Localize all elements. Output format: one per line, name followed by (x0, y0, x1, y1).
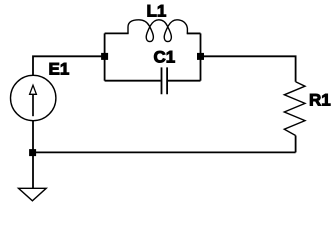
inductor L1 (128, 20, 201, 42)
node B junction square (right LC node) (197, 53, 204, 60)
svg-text:E1: E1 (49, 60, 70, 79)
wire from E1 top to node A (33, 56, 102, 76)
wire inductor left lead (105, 32, 129, 34)
wire bottom rail (33, 151, 296, 153)
node G junction square (ground node) (29, 149, 36, 156)
source E1 arrow shaft (32, 94, 34, 116)
wire capacitor left lead (105, 80, 161, 82)
wire E1 bottom to ground node (32, 121, 34, 150)
wire capacitor right lead (168, 80, 201, 82)
wire right LC vertical bar (200, 33, 202, 80)
svg-text:L1: L1 (147, 1, 167, 20)
wire node B to R1 top (204, 56, 296, 82)
node A junction square (left LC node) (101, 53, 108, 60)
ground (19, 188, 47, 201)
wire left LC vertical bar (104, 33, 106, 80)
wire R1 bottom lead (295, 136, 297, 153)
wire ground stem (32, 156, 34, 188)
resistor R1 (284, 82, 305, 136)
wire inductor right lead (187, 32, 201, 34)
svg-text:C1: C1 (154, 47, 176, 66)
svg-text:R1: R1 (309, 91, 331, 110)
capacitor C1 plates (162, 67, 168, 94)
source E1 arrowhead (30, 85, 37, 94)
source E1 circle (11, 75, 56, 120)
